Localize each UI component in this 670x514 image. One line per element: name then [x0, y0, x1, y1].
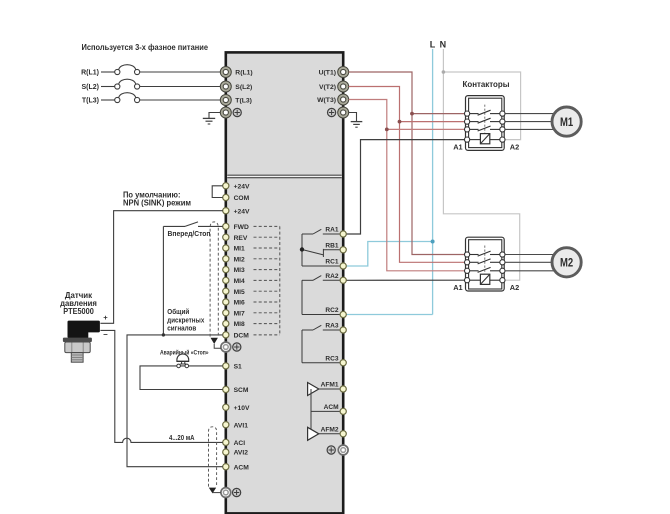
svg-text:T(L3): T(L3) [82, 98, 99, 105]
svg-text:COM: COM [234, 195, 250, 202]
circuit breaker pole R(L1) [81, 65, 140, 77]
relay 1 contact (RA1/RB1/RC1) [300, 229, 340, 266]
svg-text:Используется 3-х фазное питани: Используется 3-х фазное питание [82, 42, 209, 52]
terminal MI6 left [223, 299, 245, 307]
terminal R(L1) on drive [220, 67, 252, 78]
svg-text:MI7: MI7 [234, 310, 245, 317]
motor M2 [552, 248, 581, 277]
svg-text:ACM: ACM [234, 464, 250, 471]
wire FWD switch to DCM common [162, 226, 164, 335]
note: 3-phase supply title [82, 42, 209, 52]
junction DCM dot [162, 333, 165, 336]
label Contactors [463, 79, 510, 89]
svg-text:+24V: +24V [234, 183, 250, 190]
circuit breaker pole T(L3) [82, 93, 140, 105]
svg-text:U(T1): U(T1) [319, 70, 336, 77]
svg-text:AVI2: AVI2 [234, 450, 249, 457]
svg-text:A1: A1 [453, 283, 462, 292]
label common of discrete signals [167, 308, 204, 333]
svg-text:MI5: MI5 [234, 289, 245, 296]
terminal MI1 left [223, 245, 245, 253]
terminal T(L3) on drive [220, 95, 252, 106]
relay 3 contact (RA3/RC3) [302, 325, 340, 362]
svg-text:W(T3): W(T3) [317, 97, 336, 104]
junction U dot [410, 112, 414, 116]
wire U(T1) to contactors [349, 72, 465, 255]
wire S(L2) to drive [140, 86, 221, 88]
circuit breaker pole S(L2) [82, 79, 140, 91]
wire sensor minus to ACI [100, 330, 222, 442]
terminal MI8 left [223, 321, 245, 329]
terminal DCM left [223, 332, 250, 340]
terminal RA3 right [325, 323, 346, 334]
svg-text:L: L [430, 40, 436, 50]
analog common link [311, 389, 340, 434]
wire +24V to pressure sensor plus [100, 211, 222, 324]
svg-text:AVI1: AVI1 [234, 422, 249, 429]
svg-text:R(L1): R(L1) [235, 70, 252, 77]
shield analog dashed [209, 427, 217, 487]
screw PE control right [327, 446, 335, 454]
svg-text:REV: REV [234, 235, 248, 242]
wire R(L1) to drive [140, 71, 221, 73]
svg-text:N: N [440, 40, 447, 50]
svg-text:T(L3): T(L3) [235, 98, 252, 105]
junction W dot [385, 127, 389, 131]
analog output AFM1 buffer [308, 383, 341, 396]
terminal AFM2 right [321, 426, 347, 437]
node N [440, 40, 447, 50]
terminal PE control left (bottom) [221, 488, 231, 498]
note: default NPN sink mode [123, 190, 191, 207]
wire RA2 to contactor K2 coil A1 [346, 279, 465, 281]
wire N vertical and to contactor K2 coil A2 [443, 49, 519, 280]
svg-text:MI8: MI8 [234, 321, 245, 328]
svg-text:MI3: MI3 [234, 267, 245, 274]
analog output AFM2 buffer [308, 427, 341, 440]
junction L dot [431, 240, 435, 244]
svg-text:DCM: DCM [234, 333, 250, 340]
terminal PE left on drive [220, 107, 231, 118]
wire V(T2) to contactors [349, 87, 465, 263]
contactor K2 [465, 237, 506, 291]
jumper +24V to COM [212, 186, 223, 198]
svg-text:Контакторы: Контакторы [463, 79, 510, 89]
svg-text:PTE5000: PTE5000 [63, 307, 94, 316]
terminal +24V left [223, 183, 250, 191]
internal dashed common bus [254, 226, 280, 335]
pressure sensor PTE5000 body [63, 321, 100, 363]
svg-text:MI2: MI2 [234, 256, 245, 263]
ground symbol left input [203, 113, 221, 125]
label pressure sensor PTE5000 [60, 291, 97, 316]
svg-text:S(L2): S(L2) [235, 84, 252, 91]
wires contactor K1 to motor M1 [505, 114, 564, 130]
label A2 of K1 [510, 142, 519, 151]
node L [430, 40, 436, 50]
motor M1 [552, 107, 581, 136]
svg-text:RC3: RC3 [325, 355, 339, 362]
terminal FWD left [223, 223, 249, 231]
svg-text:FWD: FWD [234, 224, 249, 231]
svg-text:RC1: RC1 [325, 259, 339, 266]
svg-text:M1: M1 [560, 115, 574, 129]
wire W(T3) to contactors [349, 100, 465, 271]
junction N dot [442, 70, 446, 74]
svg-text:Вперед/Стоп: Вперед/Стоп [168, 231, 211, 238]
svg-text:RA1: RA1 [325, 227, 339, 234]
terminal REV left [223, 234, 248, 242]
terminal AVI1 left [223, 422, 249, 430]
terminal ACI left [223, 439, 246, 447]
terminal AFM1 right [321, 382, 347, 393]
label forward/stop [168, 231, 211, 238]
svg-text:MI6: MI6 [234, 300, 245, 307]
terminal PE control right [338, 445, 348, 455]
wire DCM to ACM common [127, 335, 223, 467]
shield analog arrow to PE [209, 488, 221, 494]
svg-text:A1: A1 [453, 142, 462, 151]
svg-text:S1: S1 [234, 364, 242, 371]
label sensor plus [103, 313, 108, 322]
terminal RC2 right [325, 307, 346, 318]
terminal RA2 right [325, 273, 346, 284]
svg-text:4...20 мА: 4...20 мА [169, 433, 195, 442]
emergency stop label [160, 349, 209, 357]
svg-text:RC2: RC2 [325, 307, 339, 314]
terminal PE control left (mid) [221, 342, 231, 352]
relay 2 contact (RA2/RC2) [302, 276, 340, 315]
terminal RC3 right [325, 355, 346, 366]
terminal MI4 left [223, 277, 245, 285]
svg-text:AFM1: AFM1 [321, 382, 339, 389]
junction V dot [398, 120, 402, 124]
svg-text:A2: A2 [510, 283, 519, 292]
screw PE left top [233, 108, 241, 116]
wire RA1 to contactor K1 coil A1 [346, 140, 465, 234]
drive block section divider [227, 174, 342, 178]
svg-text:MI4: MI4 [234, 278, 245, 285]
svg-text:дискретных: дискретных [167, 317, 204, 324]
terminal S(L2) on drive [220, 81, 252, 92]
shield NPN dashed [210, 222, 218, 337]
svg-text:M2: M2 [560, 256, 574, 270]
terminal U(T1) on drive [319, 67, 349, 78]
wire S1 loop [140, 366, 223, 390]
screw PE right top [328, 108, 336, 116]
terminal ACM left [223, 464, 250, 472]
terminal W(T3) on drive [317, 94, 348, 105]
terminal MI5 left [223, 288, 245, 296]
svg-text:A2: A2 [510, 142, 519, 151]
label 4-20 mA [169, 433, 195, 442]
svg-text:RA2: RA2 [325, 273, 339, 280]
label A1 of K1 [453, 142, 462, 151]
terminal SCM left [223, 386, 249, 394]
terminal S1 left [223, 363, 242, 371]
svg-text:Общий: Общий [167, 308, 189, 316]
ground symbol right output [349, 113, 363, 128]
svg-text:V(T2): V(T2) [319, 84, 336, 91]
terminal MI3 left [223, 267, 245, 275]
wire N branch to contactor K1 coil A2 [443, 72, 520, 140]
terminal +10V left [223, 404, 250, 412]
wire T(L3) to drive [140, 99, 221, 101]
screw PE control left mid [233, 343, 241, 351]
svg-text:R(L1): R(L1) [81, 70, 99, 77]
terminal +24V left [223, 208, 250, 216]
terminal V(T2) on drive [319, 81, 349, 92]
svg-text:RB1: RB1 [325, 242, 339, 249]
terminal ACM right [324, 404, 347, 415]
terminal RC1 right [325, 259, 346, 270]
contactor K1 [465, 96, 506, 151]
wire L branch to RC1 [346, 242, 432, 267]
svg-text:AFM2: AFM2 [321, 426, 339, 433]
terminal AVI2 left [223, 449, 249, 457]
svg-text:ACI: ACI [234, 440, 246, 447]
terminal COM left [223, 194, 250, 202]
svg-text:RA3: RA3 [325, 323, 339, 330]
wire L to RC2 [346, 314, 432, 316]
svg-text:+24V: +24V [234, 208, 250, 215]
svg-text:–: – [103, 330, 108, 339]
svg-text:S(L2): S(L2) [82, 84, 100, 91]
svg-text:NPN (SINK) режим: NPN (SINK) режим [123, 199, 191, 208]
svg-text:+10V: +10V [234, 405, 250, 412]
wires contactor K2 to motor M2 [505, 255, 564, 271]
VFD drive block U1 [226, 52, 343, 513]
label A1 of K2 [453, 283, 462, 292]
terminal MI2 left [223, 256, 245, 264]
shield NPN arrow to PE [211, 338, 222, 349]
svg-text:ACM: ACM [324, 404, 340, 411]
terminal RB1 right [325, 242, 346, 253]
label sensor minus [103, 330, 108, 339]
svg-text:SCM: SCM [234, 387, 249, 394]
wire L vertical [432, 49, 434, 315]
terminal RA1 right [325, 227, 346, 237]
emergency stop button [177, 354, 189, 368]
screw PE control left bottom [233, 488, 241, 496]
label A2 of K2 [510, 283, 519, 292]
switch forward/stop on FWD [163, 222, 222, 227]
terminal MI7 left [223, 310, 245, 318]
svg-text:сигналов: сигналов [167, 326, 197, 333]
terminal PE right on drive [338, 107, 349, 118]
svg-text:+: + [103, 313, 108, 322]
svg-text:MI1: MI1 [234, 246, 245, 253]
